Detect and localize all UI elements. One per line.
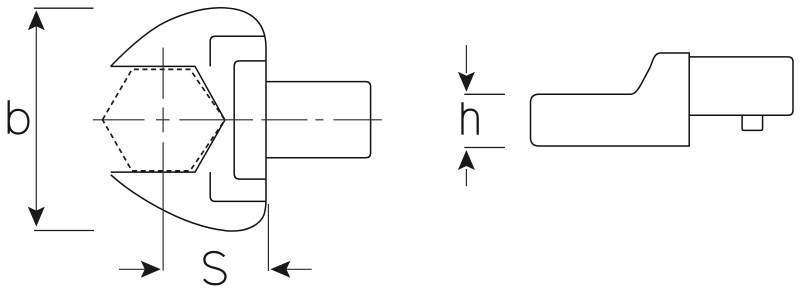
- dimension b bottom extension tick: [34, 230, 94, 232]
- label S: [204, 252, 226, 284]
- side view beam outline: [531, 53, 690, 146]
- dimension h bottom arrow line: [465, 169, 467, 186]
- slot outer contour upper part: [210, 36, 265, 66]
- dimension h bottom extension tick: [464, 147, 505, 149]
- dimension b top arrowhead: [28, 10, 45, 30]
- dimension h top arrow line: [465, 45, 467, 73]
- dimension h bottom arrowhead: [458, 150, 475, 170]
- wrench head outer outline: [111, 8, 266, 231]
- hexagon (dashed): [103, 69, 225, 170]
- dimension h top arrowhead: [458, 72, 475, 92]
- dimension b bottom arrowhead: [28, 207, 45, 227]
- slot inner contour: [234, 61, 266, 179]
- dimension S right arrow line: [286, 268, 312, 270]
- dimension S left arrow line: [119, 268, 146, 270]
- side view drive block: [689, 57, 793, 115]
- shaft (square drive tang): [266, 82, 371, 158]
- dimension b top extension tick: [34, 7, 94, 9]
- label h: [463, 102, 478, 134]
- dimension h top extension tick: [464, 93, 505, 95]
- dimension b arrow line: [35, 24, 37, 213]
- dimension S right extension line: [267, 204, 269, 271]
- vertical centerline: [162, 48, 164, 271]
- slot outer contour lower part: [210, 172, 266, 201]
- horizontal centerline: [93, 119, 382, 121]
- jaw opening profile: [111, 66, 225, 172]
- label b: [9, 100, 29, 133]
- side view retaining peg: [742, 115, 763, 130]
- dimension S right arrowhead: [270, 261, 290, 278]
- dimension S left arrowhead: [141, 261, 161, 278]
